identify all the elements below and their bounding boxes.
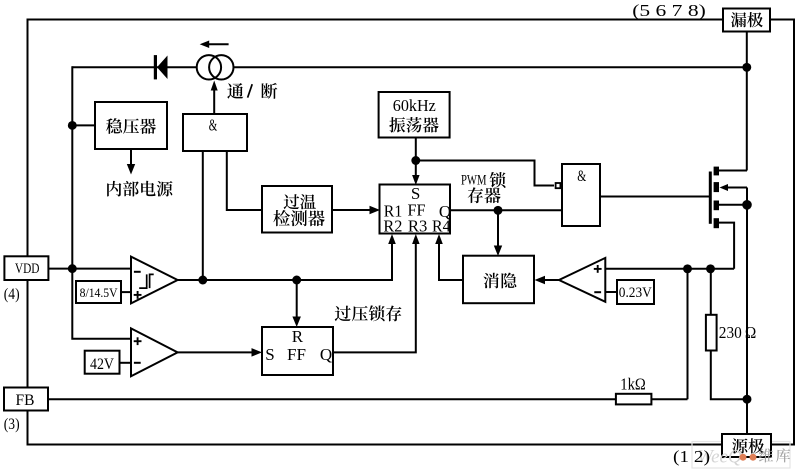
wire: drain vertical from 漏极 pin through top rail to MOSFET drain (746, 31, 748, 171)
wire: oscillator branch to AND2 inverted input (416, 161, 554, 186)
wire: AND2 output to MOSFET gate (600, 196, 710, 198)
svg-text:FF: FF (287, 345, 306, 364)
wire: 42V comparator output to S of OV latch (178, 351, 260, 353)
wire: AND1 input from UV comparator output (left leg) (202, 151, 204, 280)
current source circles (197, 55, 221, 79)
pin box: FB (pin 3) (4, 388, 48, 411)
svg-text:60kHz: 60kHz (393, 96, 436, 115)
wire: FB pin line to 1k ohm (48, 398, 617, 400)
junction dot: 1k ohm node (683, 264, 692, 273)
junction dot: 230 ohm node (706, 264, 715, 273)
svg-text:230 Ω: 230 Ω (719, 323, 757, 342)
wire: VDD pin to UV comparator minus input (48, 268, 131, 270)
wire: UV comparator output bus y=280 (178, 279, 393, 281)
wire: top supply rail y=67 (72, 66, 747, 68)
wire: down into R of OV latch (296, 280, 298, 324)
junction dot: rail-VDD (68, 264, 77, 273)
wire: PWM latch Q to AND2 lower input (450, 209, 562, 211)
svg-text:(5 6 7 8): (5 6 7 8) (632, 1, 706, 20)
block: AND1 gate (183, 114, 247, 151)
svg-text:0.23V: 0.23V (619, 285, 652, 301)
diode triangle (157, 56, 168, 80)
junction dot: Q branch (494, 206, 503, 215)
diode in top rail: cathode bar (154, 55, 157, 79)
svg-text:R2: R2 (383, 216, 402, 235)
MOSFET power switch: gate line (709, 172, 712, 224)
svg-text:(4): (4) (4, 286, 20, 303)
wire: 8/14.5V to + input (121, 291, 131, 293)
junction dot: oscillator branch (411, 156, 420, 165)
svg-text:(1 2): (1 2) (673, 447, 710, 466)
block: PWM latch flip-flop (380, 185, 451, 234)
wire: AND1 input from thermal detector (right leg) (227, 151, 262, 210)
wire: blanking output up into R4 of PWM latch (439, 237, 462, 280)
current direction arrow above (203, 43, 229, 45)
wire: 230 ohm branch down to source node (710, 269, 712, 316)
junction dot: body-sense node (742, 200, 752, 210)
wire: oscillator output down to S of PWM latch (415, 138, 417, 183)
svg-text:S: S (265, 345, 274, 364)
inversion bubble at AND2 input (556, 183, 561, 188)
svg-text:(3): (3) (4, 416, 20, 433)
MOSFET drain lead (719, 170, 747, 172)
wire: regulator output arrow to 内部电源 (130, 149, 132, 171)
wire: 1k ohm up leg (687, 269, 689, 399)
op-amp OV comparator (42V) (131, 328, 178, 376)
svg-text:Q: Q (320, 345, 332, 364)
junction dot: 230 ohm bottom node (743, 395, 752, 404)
reference box 0.23V (617, 280, 654, 304)
watermark backing box (692, 442, 790, 469)
MOSFET channel bar 2 (body) (714, 182, 719, 192)
svg-text:VDD: VDD (15, 261, 40, 277)
junction dot: AND1 left leg (198, 276, 207, 285)
block: 60kHz oscillator (379, 92, 450, 138)
reference box 8/14.5V (76, 281, 121, 303)
svg-text:R4: R4 (432, 216, 451, 235)
label: 通/断 on-off (227, 83, 243, 99)
svg-text:42V: 42V (90, 356, 115, 373)
wire: OV latch Q up into R3 of PWM latch (333, 237, 416, 352)
svg-text:R3: R3 (408, 216, 428, 235)
wire: thermal detector output to R1 (333, 209, 378, 211)
label: 内部电源 internal supply (107, 181, 121, 197)
svg-text:8/14.5V: 8/14.5V (80, 285, 119, 300)
MOSFET channel bar 1 (drain) (714, 167, 719, 176)
wire: blanking comparator output arrow into 消隐 (537, 279, 559, 281)
resistor 230 ohm (706, 315, 717, 351)
MOSFET channel bar 4 (source) (714, 218, 719, 228)
wire: Q branch down into blanking block (497, 210, 499, 253)
junction dot: OV latch R branch (292, 276, 301, 285)
label: 过压锁存 overvoltage latch (335, 306, 351, 322)
svg-text:R: R (292, 327, 304, 346)
pin box: drain 漏极 (pins 5 6 7 8) (723, 9, 770, 32)
wire: 1k ohm to sense node leg (651, 398, 688, 400)
wire: body-sense node down to source pin (746, 205, 748, 434)
svg-text:&: & (577, 168, 586, 185)
reference box 42V (85, 351, 120, 374)
block: thermal detector 过温检测器 (262, 186, 332, 233)
wire: up into R2 of PWM latch (391, 237, 393, 281)
op-amp UV comparator (8/14.5V hysteresis) (131, 257, 178, 304)
wire: left VDD rail x=72.3 down to 42V comparator + input (72, 66, 131, 338)
resistor 1k ohm (616, 394, 652, 405)
MOSFET source lead down to sense line (719, 223, 734, 269)
block: overvoltage latch flip-flop (262, 327, 333, 375)
MOSFET channel bar 3 (sense) (714, 201, 719, 211)
svg-text:1kΩ: 1kΩ (620, 374, 646, 393)
wire: 42V to - input (120, 362, 131, 364)
MOSFET body lead with arrow (727, 187, 747, 189)
block: regulator 稳压器 (95, 102, 167, 149)
junction dot: rail-regulator (68, 121, 77, 130)
hysteresis symbol (139, 274, 154, 288)
svg-text:&: & (209, 115, 218, 134)
MOSFET sense lead (719, 204, 747, 206)
pin box: source 源极 (pins 1 2) (722, 434, 771, 457)
pin box: VDD (pin 4) (4, 256, 48, 280)
wire: current sense line y=268.4 (605, 268, 734, 270)
wire: AND1 output arrow up into current source (213, 84, 215, 114)
wire: stub to regulator (71, 124, 95, 126)
block: AND2 gate (562, 164, 600, 226)
svg-text:FB: FB (16, 392, 35, 409)
junction dot: top rail to drain (742, 63, 751, 72)
svg-text:PWM: PWM (461, 173, 487, 189)
block: blanking 消隐 (463, 256, 534, 304)
op-amp current limit comparator (0.23V), points left (559, 258, 605, 302)
wire: 0.23V reference to comparator minus (605, 291, 617, 293)
